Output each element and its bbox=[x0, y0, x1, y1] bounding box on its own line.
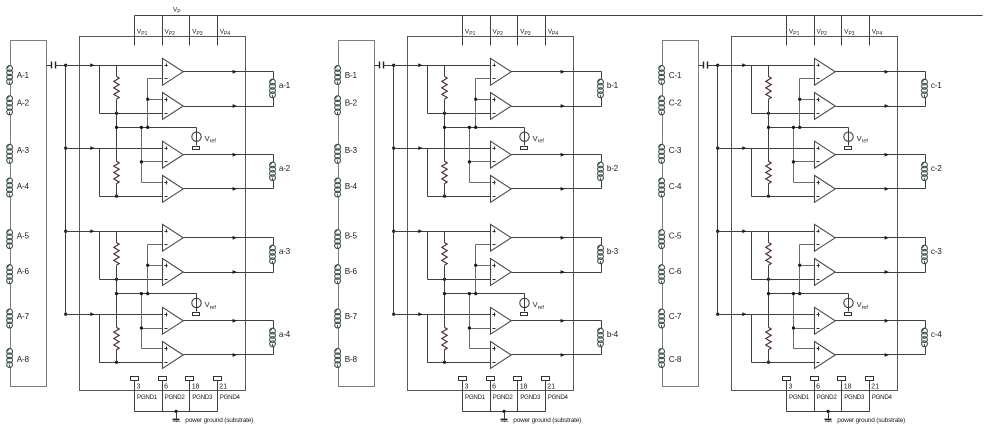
wire arrow bbox=[418, 312, 422, 316]
op-amp driver B6 bbox=[491, 259, 512, 286]
inductor C-3 bbox=[659, 144, 682, 163]
wire bbox=[273, 98, 275, 107]
wire bbox=[601, 181, 603, 189]
wire arrow bbox=[561, 319, 565, 323]
wire output top 4 bbox=[512, 320, 602, 322]
junction bbox=[767, 195, 770, 198]
power pin VP2 bbox=[491, 16, 504, 46]
wire feed vertical bbox=[474, 79, 490, 128]
pin PGND2 (pin 6) bbox=[487, 377, 514, 412]
junction bbox=[767, 278, 770, 281]
inductor c-1 (output) bbox=[922, 79, 943, 98]
junction bbox=[767, 292, 770, 295]
svg-text:A-6: A-6 bbox=[17, 267, 30, 276]
wire bbox=[925, 238, 927, 246]
resistor (section 2) bbox=[766, 128, 771, 197]
op-amp driver B4 bbox=[491, 175, 512, 202]
junction bbox=[115, 278, 118, 281]
wire loop left bbox=[751, 232, 753, 280]
wire input 1 bbox=[394, 65, 491, 67]
svg-text:A-2: A-2 bbox=[17, 99, 30, 108]
wire loop left bbox=[99, 315, 101, 363]
junction bbox=[140, 292, 143, 295]
inductor B-7 bbox=[335, 309, 358, 328]
node input 2 junction bbox=[716, 147, 719, 150]
wire loop left bbox=[751, 315, 753, 363]
svg-text:c-3: c-3 bbox=[931, 247, 942, 256]
power ground symbol bbox=[825, 412, 832, 422]
wire loop left bbox=[99, 232, 101, 280]
pin PGND3 (pin 18) bbox=[838, 377, 865, 412]
wire arrow bbox=[885, 353, 889, 357]
pin PGND1 (pin 3) bbox=[459, 377, 486, 412]
wire bbox=[601, 98, 603, 107]
wire bbox=[273, 264, 275, 273]
wire output bottom 1 bbox=[512, 106, 602, 108]
op-amp driver A2 bbox=[163, 93, 184, 120]
inductor A-1 bbox=[7, 66, 30, 85]
svg-text:PGND1: PGND1 bbox=[465, 394, 486, 401]
wire resistor bottom bbox=[752, 113, 815, 115]
svg-text:C-2: C-2 bbox=[669, 99, 682, 108]
svg-text:18: 18 bbox=[520, 384, 528, 391]
wire input 3 bbox=[718, 231, 815, 233]
svg-text:A-8: A-8 bbox=[17, 355, 30, 364]
wire arrow bbox=[233, 270, 237, 274]
svg-text:power ground (substrate): power ground (substrate) bbox=[185, 417, 253, 424]
wire resistor bottom bbox=[100, 113, 163, 115]
wire arrow bbox=[885, 104, 889, 108]
node input 3 junction bbox=[392, 230, 395, 233]
power pin VP3 bbox=[518, 16, 531, 46]
node input 1 junction bbox=[716, 64, 719, 67]
junction bbox=[443, 278, 446, 281]
junction bbox=[468, 126, 471, 129]
inductor A-5 bbox=[7, 230, 30, 249]
op-amp driver B1 bbox=[491, 58, 512, 85]
svg-text:PGND4: PGND4 bbox=[872, 394, 893, 401]
wire output top 4 bbox=[184, 320, 274, 322]
op-amp driver B8 bbox=[491, 342, 512, 369]
wire loop left bbox=[427, 66, 429, 114]
wire output top 3 bbox=[836, 237, 926, 239]
op-amp driver C8 bbox=[815, 342, 836, 369]
svg-text:PGND2: PGND2 bbox=[817, 394, 838, 401]
wire arrow bbox=[742, 229, 746, 233]
svg-text:3: 3 bbox=[137, 384, 141, 391]
power ground symbol bbox=[501, 412, 508, 422]
wire arrow bbox=[561, 270, 565, 274]
wire resistor bottom bbox=[100, 196, 163, 198]
svg-text:power ground (substrate): power ground (substrate) bbox=[837, 417, 905, 424]
wire output top 4 bbox=[836, 320, 926, 322]
wire bbox=[273, 155, 275, 163]
wire arrow bbox=[233, 153, 237, 157]
inductor b-4 (output) bbox=[598, 328, 619, 346]
svg-text:PGND3: PGND3 bbox=[844, 394, 865, 401]
net Vref rail 2 bbox=[769, 293, 849, 295]
resistor (section 4) bbox=[766, 294, 771, 363]
op-amp driver C6 bbox=[815, 259, 836, 286]
pin PGND3 (pin 18) bbox=[514, 377, 541, 412]
svg-text:B-6: B-6 bbox=[345, 267, 358, 276]
resistor (section 1) bbox=[442, 66, 447, 128]
wire input bus bbox=[65, 66, 67, 315]
wire arrow bbox=[561, 153, 565, 157]
svg-text:b-2: b-2 bbox=[607, 164, 619, 173]
junction bbox=[443, 361, 446, 364]
wire input 4 bbox=[66, 314, 163, 316]
node input 1 junction bbox=[392, 64, 395, 67]
resistor (section 2) bbox=[114, 128, 119, 197]
wire arrow bbox=[90, 146, 94, 150]
junction bbox=[474, 126, 477, 129]
svg-text:a-2: a-2 bbox=[279, 164, 291, 173]
pin PGND3 (pin 18) bbox=[186, 377, 213, 412]
pin PGND4 (pin 21) bbox=[214, 377, 241, 412]
resistor (section 3) bbox=[766, 232, 771, 294]
inductor a-2 (output) bbox=[270, 162, 291, 181]
op-amp driver C7 bbox=[815, 307, 836, 334]
pin PGND4 (pin 21) bbox=[866, 377, 893, 412]
wire arrow bbox=[561, 353, 565, 357]
wire loop left bbox=[99, 149, 101, 197]
svg-text:PGND3: PGND3 bbox=[192, 394, 213, 401]
main box phase B driver bbox=[408, 37, 574, 391]
wire resistor bottom bbox=[428, 113, 491, 115]
wire output top 1 bbox=[184, 71, 274, 73]
pin PGND1 (pin 3) bbox=[783, 377, 810, 412]
wire bbox=[925, 72, 927, 80]
inductor c-2 (output) bbox=[922, 162, 943, 181]
junction bbox=[503, 410, 506, 413]
junction bbox=[798, 126, 801, 129]
svg-text:C-4: C-4 bbox=[669, 182, 682, 191]
wire resistor bottom bbox=[100, 279, 163, 281]
svg-text:b-3: b-3 bbox=[607, 247, 619, 256]
wire resistor bottom bbox=[752, 196, 815, 198]
node input 2 junction bbox=[392, 147, 395, 150]
wire input 2 bbox=[394, 148, 491, 150]
wire arrow bbox=[233, 353, 237, 357]
inductor b-3 (output) bbox=[598, 245, 619, 263]
wire loop left bbox=[427, 315, 429, 363]
winding box phase A bbox=[11, 41, 47, 387]
power pin VP1 bbox=[463, 16, 476, 46]
resistor (section 4) bbox=[442, 294, 447, 363]
svg-text:PGND4: PGND4 bbox=[220, 394, 241, 401]
wire resistor bottom bbox=[752, 362, 815, 364]
net Vref rail 1 bbox=[117, 127, 197, 129]
inductor b-1 (output) bbox=[598, 79, 619, 98]
inductor a-1 (output) bbox=[270, 79, 291, 98]
junction bbox=[443, 126, 446, 129]
inductor A-2 bbox=[7, 96, 30, 115]
wire feed vertical bbox=[792, 294, 815, 349]
wire arrow bbox=[561, 70, 565, 74]
svg-text:C-1: C-1 bbox=[669, 71, 682, 80]
svg-text:B-7: B-7 bbox=[345, 312, 358, 321]
svg-text:b-1: b-1 bbox=[607, 81, 619, 90]
current source Vref 2 bbox=[844, 294, 869, 312]
power pin VP4 bbox=[870, 16, 883, 46]
svg-text:c-1: c-1 bbox=[931, 81, 942, 90]
inductor B-5 bbox=[335, 230, 358, 249]
inductor C-1 bbox=[659, 66, 682, 85]
svg-text:c-4: c-4 bbox=[931, 330, 942, 339]
inductor C-8 bbox=[659, 349, 682, 368]
wire arrow bbox=[233, 187, 237, 191]
svg-text:a-3: a-3 bbox=[279, 247, 291, 256]
wire feed vertical bbox=[468, 294, 491, 349]
svg-text:18: 18 bbox=[844, 384, 852, 391]
svg-text:A-5: A-5 bbox=[17, 232, 30, 241]
svg-text:b-4: b-4 bbox=[607, 330, 619, 339]
wire output top 1 bbox=[512, 71, 602, 73]
wire arrow bbox=[233, 104, 237, 108]
junction bbox=[115, 126, 118, 129]
wire PGND bus bbox=[787, 411, 870, 413]
inductor B-1 bbox=[335, 66, 358, 85]
wire bbox=[925, 155, 927, 163]
wire bbox=[273, 238, 275, 246]
junction bbox=[767, 112, 770, 115]
inductor C-6 bbox=[659, 265, 682, 284]
svg-text:a-1: a-1 bbox=[279, 81, 291, 90]
net Vref rail 2 bbox=[445, 293, 525, 295]
inductor B-3 bbox=[335, 144, 358, 163]
inductor C-4 bbox=[659, 178, 682, 197]
wire resistor bottom bbox=[752, 279, 815, 281]
net VP (top supply bus) bbox=[135, 15, 983, 17]
junction bbox=[443, 112, 446, 115]
wire arrow bbox=[561, 236, 565, 240]
wire arrow bbox=[418, 146, 422, 150]
svg-text:B-1: B-1 bbox=[345, 71, 358, 80]
wire feed vertical bbox=[792, 128, 815, 183]
wire bbox=[601, 72, 603, 80]
resistor (section 3) bbox=[114, 232, 119, 294]
inductor C-7 bbox=[659, 309, 682, 328]
op-amp driver A4 bbox=[163, 175, 184, 202]
wire arrow bbox=[90, 63, 94, 67]
junction bbox=[146, 126, 149, 129]
wire output top 2 bbox=[836, 154, 926, 156]
op-amp driver A8 bbox=[163, 342, 184, 369]
inductor C-5 bbox=[659, 230, 682, 249]
main box phase C driver bbox=[732, 37, 898, 391]
wire arrow bbox=[233, 70, 237, 74]
pin PGND4 (pin 21) bbox=[542, 377, 569, 412]
wire output bottom 4 bbox=[184, 354, 274, 356]
inductor B-2 bbox=[335, 96, 358, 115]
wire input 4 bbox=[718, 314, 815, 316]
wire bbox=[601, 155, 603, 163]
wire arrow bbox=[742, 63, 746, 67]
wire arrow bbox=[742, 146, 746, 150]
op-amp driver C1 bbox=[815, 58, 836, 85]
resistor (section 1) bbox=[114, 66, 119, 128]
svg-text:a-4: a-4 bbox=[279, 330, 291, 339]
op-amp driver B3 bbox=[491, 141, 512, 168]
resistor (section 1) bbox=[766, 66, 771, 128]
junction bbox=[798, 292, 801, 295]
junction bbox=[140, 126, 143, 129]
wire feed vertical bbox=[146, 245, 162, 294]
capacitor (coupling) bbox=[47, 62, 66, 69]
svg-text:power ground (substrate): power ground (substrate) bbox=[513, 417, 581, 424]
junction bbox=[767, 126, 770, 129]
wire feed vertical bbox=[474, 245, 490, 294]
wire loop left bbox=[427, 149, 429, 197]
power pin VP1 bbox=[787, 16, 800, 46]
svg-text:B-4: B-4 bbox=[345, 182, 358, 191]
junction bbox=[792, 126, 795, 129]
svg-text:C-7: C-7 bbox=[669, 312, 682, 321]
wire input 3 bbox=[66, 231, 163, 233]
wire arrow bbox=[885, 319, 889, 323]
power pin VP4 bbox=[546, 16, 559, 46]
junction bbox=[443, 195, 446, 198]
junction bbox=[115, 361, 118, 364]
junction bbox=[146, 292, 149, 295]
svg-text:6: 6 bbox=[816, 384, 820, 391]
wire arrow bbox=[90, 229, 94, 233]
op-amp driver C4 bbox=[815, 175, 836, 202]
op-amp driver B2 bbox=[491, 93, 512, 120]
wire output bottom 2 bbox=[512, 188, 602, 190]
wire output bottom 1 bbox=[184, 106, 274, 108]
junction bbox=[474, 292, 477, 295]
wire output bottom 3 bbox=[836, 272, 926, 274]
wire input 4 bbox=[394, 314, 491, 316]
wire bbox=[273, 181, 275, 189]
resistor (section 2) bbox=[442, 128, 447, 197]
wire bbox=[601, 238, 603, 246]
winding box phase C bbox=[663, 41, 699, 387]
inductor B-6 bbox=[335, 265, 358, 284]
wire loop left bbox=[751, 149, 753, 197]
op-amp driver B5 bbox=[491, 224, 512, 251]
pin PGND2 (pin 6) bbox=[159, 377, 186, 412]
wire bbox=[601, 347, 603, 355]
inductor b-2 (output) bbox=[598, 162, 619, 181]
wire bbox=[601, 321, 603, 329]
power pin VP2 bbox=[163, 16, 176, 46]
op-amp driver B7 bbox=[491, 307, 512, 334]
wire resistor bottom bbox=[428, 362, 491, 364]
wire resistor bottom bbox=[100, 362, 163, 364]
svg-text:A-3: A-3 bbox=[17, 146, 30, 155]
net Vref rail 1 bbox=[445, 127, 525, 129]
op-amp driver A6 bbox=[163, 259, 184, 286]
svg-text:PGND3: PGND3 bbox=[520, 394, 541, 401]
inductor a-4 (output) bbox=[270, 328, 291, 346]
svg-text:21: 21 bbox=[871, 384, 879, 391]
ground (Vref 1) bbox=[193, 147, 200, 150]
node input 3 junction bbox=[716, 230, 719, 233]
inductor A-7 bbox=[7, 309, 30, 328]
wire bbox=[925, 98, 927, 107]
inductor C-2 bbox=[659, 96, 682, 115]
wire arrow bbox=[885, 187, 889, 191]
inductor A-6 bbox=[7, 265, 30, 284]
resistor (section 4) bbox=[114, 294, 119, 363]
wire feed vertical bbox=[146, 79, 162, 128]
wire arrow bbox=[418, 63, 422, 67]
svg-text:B-8: B-8 bbox=[345, 355, 358, 364]
ground (Vref 2) bbox=[845, 313, 852, 316]
node input 4 junction bbox=[64, 313, 67, 316]
current source Vref 2 bbox=[520, 294, 545, 312]
pin PGND1 (pin 3) bbox=[131, 377, 158, 412]
wire arrow bbox=[418, 229, 422, 233]
svg-text:21: 21 bbox=[219, 384, 227, 391]
svg-text:c-2: c-2 bbox=[931, 164, 942, 173]
wire feed vertical bbox=[798, 245, 814, 294]
op-amp driver C3 bbox=[815, 141, 836, 168]
junction bbox=[175, 410, 178, 413]
inductor B-4 bbox=[335, 178, 358, 197]
junction bbox=[115, 292, 118, 295]
ground (Vref 2) bbox=[521, 313, 528, 316]
svg-text:C-3: C-3 bbox=[669, 146, 682, 155]
node input 2 junction bbox=[64, 147, 67, 150]
wire feed vertical bbox=[140, 294, 163, 349]
wire arrow bbox=[90, 312, 94, 316]
wire arrow bbox=[885, 270, 889, 274]
wire bbox=[925, 264, 927, 273]
current source Vref 1 bbox=[844, 128, 869, 146]
op-amp driver C5 bbox=[815, 224, 836, 251]
svg-text:A-1: A-1 bbox=[17, 71, 30, 80]
winding box phase B bbox=[339, 41, 375, 387]
wire arrow bbox=[233, 236, 237, 240]
junction bbox=[827, 410, 830, 413]
wire bbox=[273, 321, 275, 329]
wire input 3 bbox=[394, 231, 491, 233]
wire input 2 bbox=[66, 148, 163, 150]
node input 4 junction bbox=[716, 313, 719, 316]
svg-text:6: 6 bbox=[164, 384, 168, 391]
op-amp driver A5 bbox=[163, 224, 184, 251]
wire output top 2 bbox=[512, 154, 602, 156]
wire bbox=[925, 321, 927, 329]
wire PGND bus bbox=[463, 411, 546, 413]
wire loop left bbox=[427, 232, 429, 280]
wire output bottom 3 bbox=[512, 272, 602, 274]
power pin VP3 bbox=[842, 16, 855, 46]
net Vref rail 2 bbox=[117, 293, 197, 295]
current source Vref 1 bbox=[192, 128, 217, 146]
wire arrow bbox=[885, 153, 889, 157]
current source Vref 2 bbox=[192, 294, 217, 312]
wire output bottom 2 bbox=[836, 188, 926, 190]
inductor A-3 bbox=[7, 144, 30, 163]
wire PGND bus bbox=[135, 411, 218, 413]
wire input 1 bbox=[66, 65, 163, 67]
wire arrow bbox=[561, 104, 565, 108]
wire arrow bbox=[561, 187, 565, 191]
wire resistor bottom bbox=[428, 279, 491, 281]
power pin VP3 bbox=[190, 16, 203, 46]
wire loop left bbox=[99, 66, 101, 114]
junction bbox=[115, 112, 118, 115]
wire bbox=[273, 72, 275, 80]
inductor c-4 (output) bbox=[922, 328, 943, 346]
inductor B-8 bbox=[335, 349, 358, 368]
inductor c-3 (output) bbox=[922, 245, 943, 263]
